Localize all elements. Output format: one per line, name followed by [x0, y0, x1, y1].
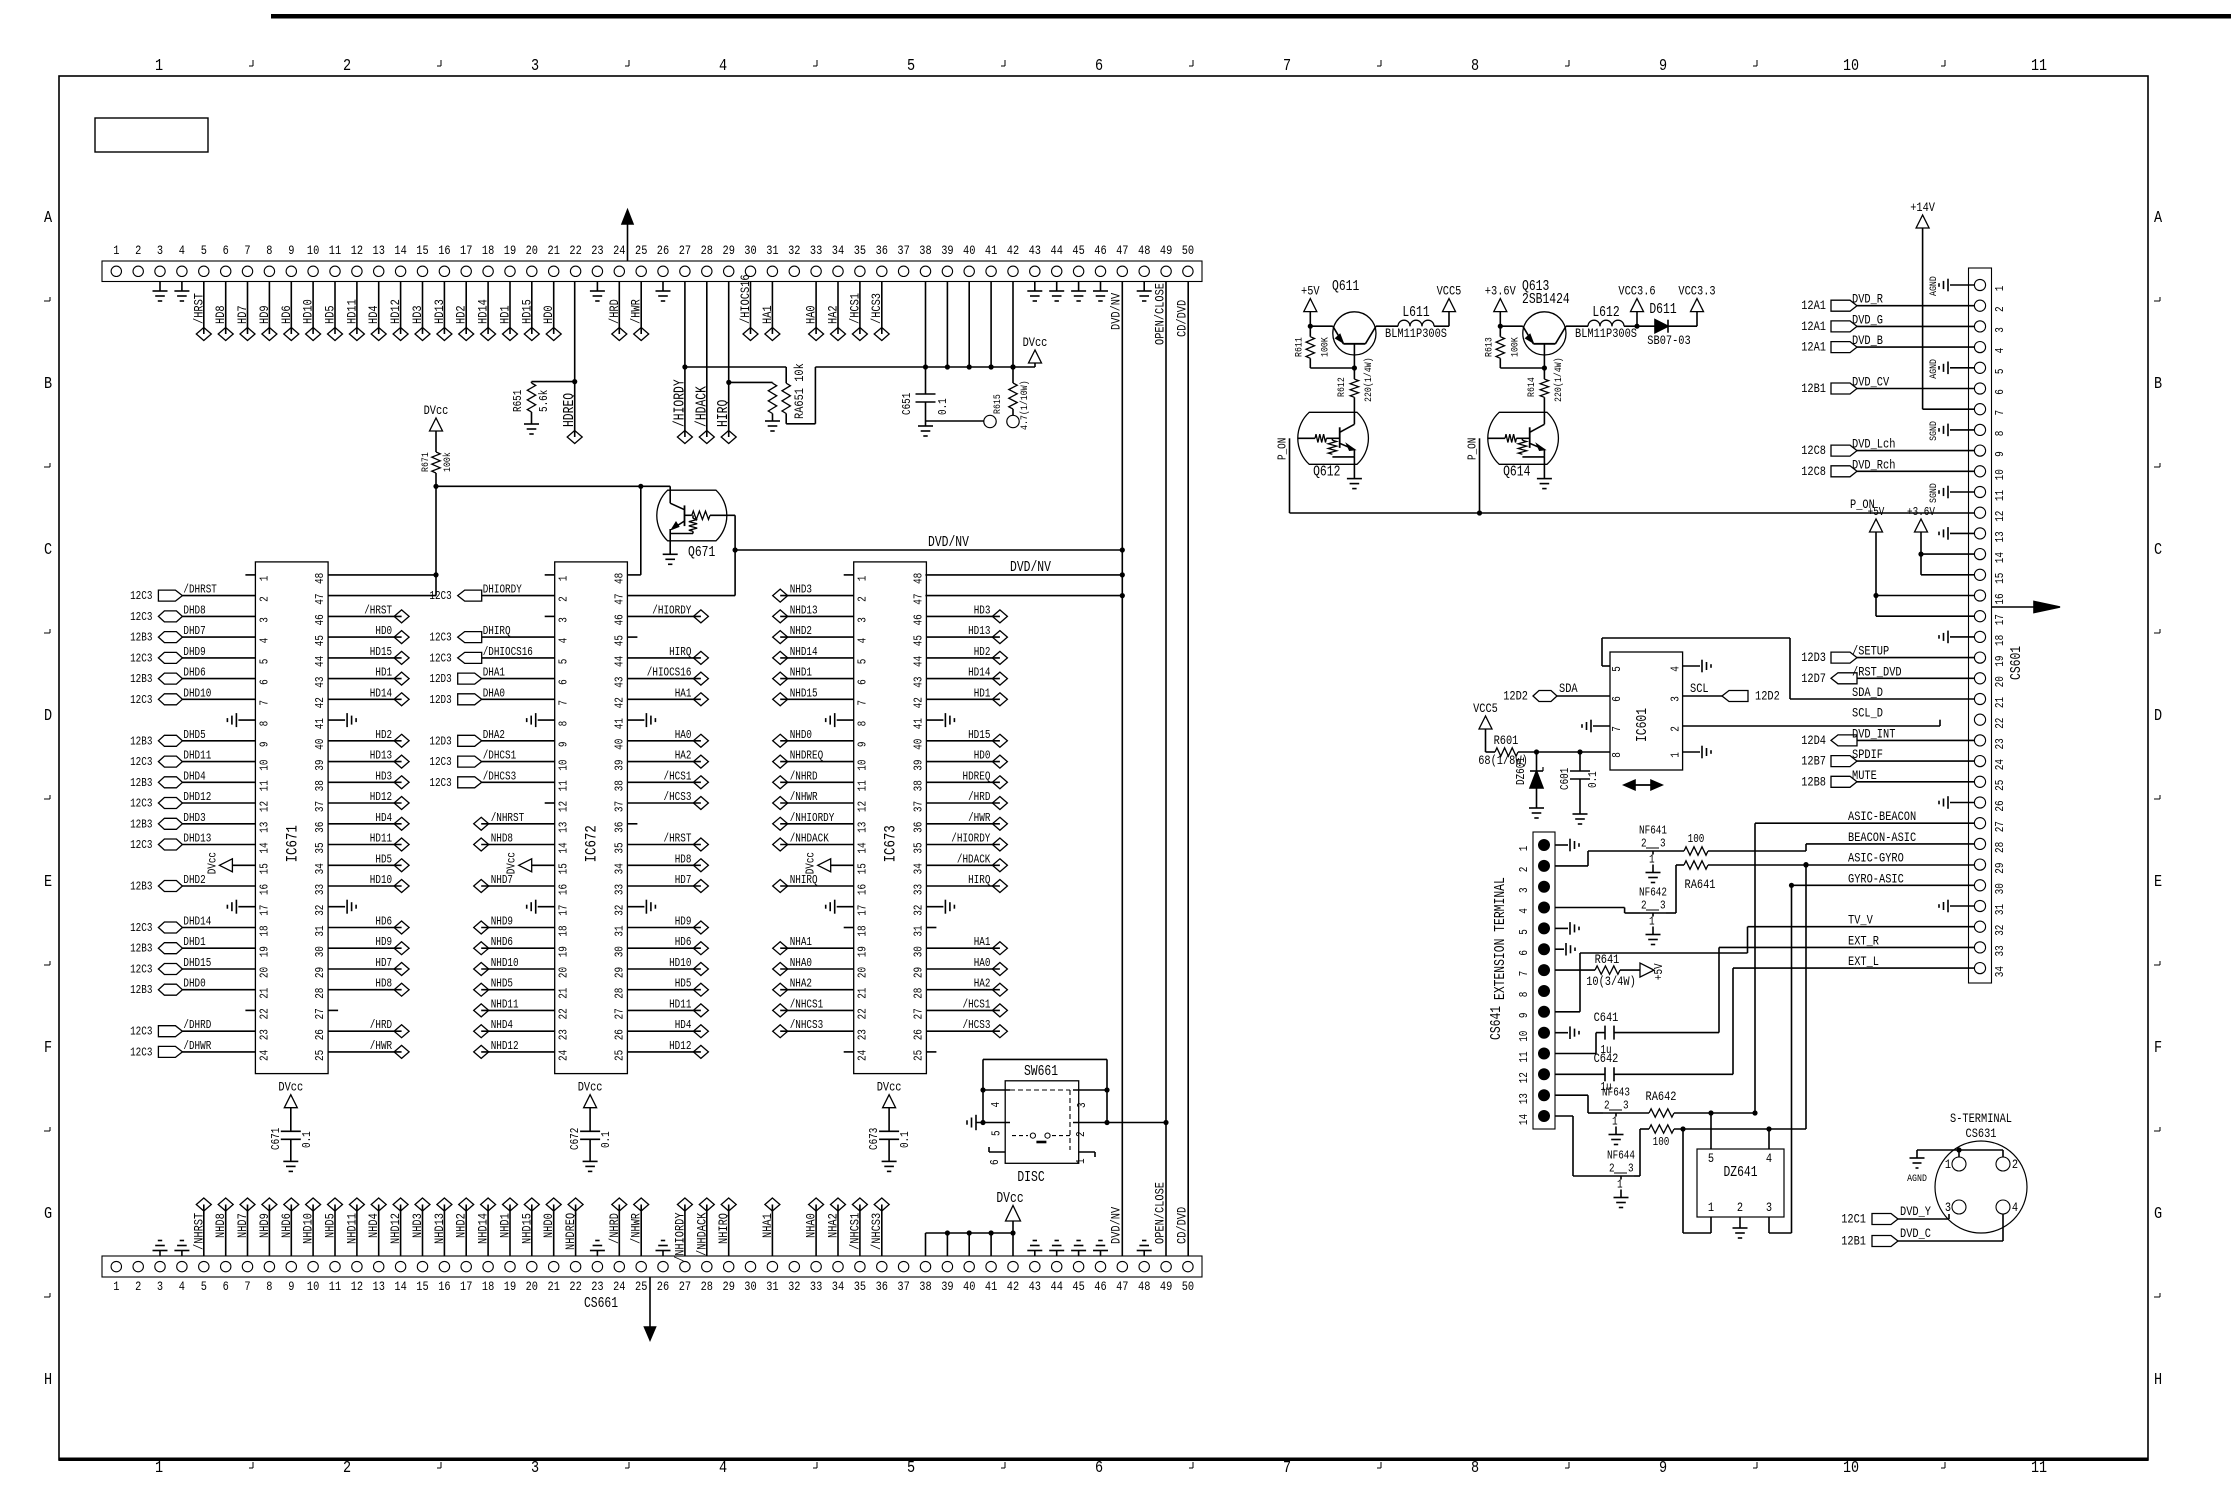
svg-text:12D3: 12D3: [429, 672, 451, 686]
svg-text:42: 42: [911, 697, 925, 708]
svg-text:SCL_D: SCL_D: [1852, 706, 1883, 721]
svg-text:40: 40: [963, 1279, 975, 1294]
connector CS601: [1969, 268, 1992, 983]
svg-text:27: 27: [679, 1279, 691, 1294]
svg-text:DVD_C: DVD_C: [1900, 1226, 1931, 1241]
net stub /NHRST: [203, 1205, 205, 1257]
svg-text:D611: D611: [1649, 302, 1676, 318]
svg-text:22: 22: [856, 1008, 870, 1019]
svg-text:20: 20: [257, 967, 271, 978]
net flag DVD_C 12B1: [1872, 1236, 1898, 1247]
svg-text:0.1: 0.1: [300, 1131, 314, 1148]
power DVcc: [831, 864, 854, 866]
svg-text:/HWR: /HWR: [370, 1039, 392, 1053]
svg-text:27: 27: [313, 1008, 327, 1019]
svg-text:0.1: 0.1: [898, 1131, 912, 1148]
svg-text:12C3: 12C3: [130, 1025, 152, 1039]
svg-text:1: 1: [1612, 1115, 1618, 1129]
net stub NHD9: [268, 1205, 270, 1257]
svg-text:43: 43: [313, 677, 327, 688]
ground: [238, 906, 255, 908]
resistor array RA641 (lower): [1684, 861, 1708, 869]
net stub HD6: [328, 927, 402, 929]
svg-text:AGND: AGND: [1907, 1173, 1927, 1185]
svg-text:HD8: HD8: [675, 852, 692, 866]
svg-text:7: 7: [1283, 1459, 1291, 1478]
svg-text:G: G: [44, 1205, 52, 1224]
svg-text:100K: 100K: [1509, 337, 1521, 357]
svg-text:25: 25: [1993, 780, 2007, 791]
svg-text:6: 6: [1610, 696, 1624, 702]
svg-text:3: 3: [856, 617, 870, 623]
svg-text:NF644: NF644: [1607, 1149, 1635, 1163]
svg-text:26: 26: [911, 1029, 925, 1040]
ground: [1056, 282, 1058, 292]
svg-text:/NHDACK: /NHDACK: [790, 832, 829, 846]
svg-text:12C3: 12C3: [429, 776, 451, 790]
resistor array RA642: [1649, 1109, 1674, 1117]
svg-text:NHD1: NHD1: [498, 1213, 513, 1238]
svg-text:OPEN/CLOSE: OPEN/CLOSE: [1152, 1182, 1167, 1244]
svg-text:4: 4: [557, 638, 571, 644]
svg-text:NHD5: NHD5: [323, 1213, 338, 1238]
svg-text:37: 37: [897, 1279, 909, 1294]
svg-text:6: 6: [1517, 950, 1531, 956]
svg-text:HD3: HD3: [410, 305, 425, 324]
svg-text:1: 1: [557, 576, 571, 582]
svg-text:24: 24: [856, 1050, 870, 1061]
svg-text:38: 38: [313, 780, 327, 791]
net flag DVD_R: [1857, 305, 1974, 307]
svg-text:HD11: HD11: [669, 997, 691, 1011]
svg-text:NHD12: NHD12: [388, 1213, 403, 1244]
net stub /NHRD: [780, 781, 854, 783]
svg-text:/DHCS3: /DHCS3: [483, 769, 517, 783]
svg-text:12: 12: [351, 1279, 363, 1294]
net stub HD15: [328, 657, 402, 659]
svg-text:HD5: HD5: [375, 852, 392, 866]
svg-text:+14V: +14V: [1910, 200, 1935, 215]
svg-text:17: 17: [856, 905, 870, 916]
svg-text:+5V: +5V: [1652, 963, 1666, 980]
svg-text:29: 29: [612, 967, 626, 978]
net stub HD0: [328, 636, 402, 638]
svg-text:44: 44: [612, 656, 626, 667]
svg-text:DHD2: DHD2: [183, 873, 205, 887]
svg-text:20: 20: [526, 243, 538, 258]
net flag DHD5: [182, 740, 255, 742]
svg-text:3: 3: [531, 1459, 539, 1478]
svg-text:NHD5: NHD5: [491, 977, 513, 991]
capacitor C671 0.1: [281, 1130, 301, 1132]
svg-text:OPEN/CLOSE: OPEN/CLOSE: [1152, 283, 1167, 345]
net stub /HCS3: [926, 1030, 1000, 1032]
svg-text:5: 5: [201, 1279, 207, 1294]
net stub HD4: [328, 823, 402, 825]
net stub NHD3: [780, 595, 854, 597]
net stub NHD4: [481, 1030, 555, 1032]
svg-text:33: 33: [313, 884, 327, 895]
net flag /DHRST: [182, 595, 255, 597]
svg-text:HDREQ: HDREQ: [963, 769, 991, 783]
net stub HIRQ: [926, 885, 1000, 887]
svg-text:18: 18: [257, 925, 271, 936]
svg-text:4.7(1/10W): 4.7(1/10W): [1019, 380, 1031, 430]
svg-text:37: 37: [897, 243, 909, 258]
svg-text:HD4: HD4: [375, 811, 392, 825]
svg-text:23: 23: [591, 1279, 603, 1294]
svg-text:HD7: HD7: [235, 305, 250, 324]
svg-text:48: 48: [313, 573, 327, 584]
svg-text:HD9: HD9: [675, 915, 692, 929]
svg-text:EXT_R: EXT_R: [1848, 933, 1879, 948]
svg-text:4: 4: [989, 1102, 1003, 1108]
ground: [1143, 1251, 1145, 1257]
svg-text:1: 1: [1649, 915, 1655, 929]
transistor Q612: [1298, 412, 1369, 464]
svg-text:NHD4: NHD4: [491, 1018, 513, 1032]
resistor R613 100K: [1499, 326, 1501, 337]
net stub HD1: [328, 678, 402, 680]
power +5V: [1870, 519, 1883, 532]
svg-text:8: 8: [1471, 57, 1479, 76]
ground: [596, 1251, 598, 1257]
svg-text:7: 7: [1283, 57, 1291, 76]
svg-text:DVcc: DVcc: [996, 1191, 1023, 1207]
svg-text:NHIRQ: NHIRQ: [790, 873, 818, 887]
svg-text:HA1: HA1: [760, 305, 775, 324]
svg-text:5: 5: [990, 1130, 1004, 1136]
svg-text:47: 47: [612, 593, 626, 604]
net stub HD2: [465, 282, 467, 335]
svg-text:24: 24: [613, 243, 626, 258]
svg-text:42: 42: [612, 697, 626, 708]
ground: [1950, 636, 1974, 638]
svg-text:9: 9: [288, 1279, 294, 1294]
svg-text:43: 43: [1029, 243, 1041, 258]
svg-text:10: 10: [307, 1279, 319, 1294]
svg-text:12C3: 12C3: [130, 797, 152, 811]
svg-text:21: 21: [557, 988, 571, 999]
net stub NHD9: [481, 927, 555, 929]
svg-text:23: 23: [1993, 738, 2007, 749]
resistor R612 220(1/4W): [1353, 368, 1355, 379]
svg-text:42: 42: [1007, 243, 1019, 258]
svg-text:/HCS1: /HCS1: [847, 293, 862, 324]
net flag DHD12: [182, 802, 255, 804]
svg-text:11: 11: [329, 243, 342, 258]
svg-text:32: 32: [1993, 925, 2007, 936]
svg-text:L611: L611: [1402, 305, 1429, 321]
svg-text:DVcc: DVcc: [505, 852, 519, 874]
net stub HD14: [487, 282, 489, 335]
wire: [1555, 907, 1625, 909]
wire IC671 pin48/47 tie: [328, 574, 436, 576]
ground: [1100, 282, 1102, 292]
svg-text:14: 14: [394, 1279, 407, 1294]
svg-text:31: 31: [911, 925, 925, 936]
svg-text:12C1: 12C1: [1841, 1212, 1866, 1227]
svg-text:GYRO-ASIC: GYRO-ASIC: [1848, 871, 1904, 886]
svg-text:DHD7: DHD7: [183, 624, 205, 638]
svg-text:9: 9: [557, 742, 571, 748]
svg-text:26: 26: [657, 1279, 669, 1294]
svg-text:14: 14: [394, 243, 407, 258]
net stub NHD10: [312, 1205, 314, 1257]
ground: [662, 1251, 664, 1257]
svg-text:HA0: HA0: [974, 956, 991, 970]
svg-text:R641: R641: [1595, 952, 1620, 967]
svg-text:/HIORDY: /HIORDY: [672, 379, 688, 427]
net stub /HRD: [328, 1030, 402, 1032]
svg-text:HD15: HD15: [370, 645, 392, 659]
svg-text:HD10: HD10: [301, 299, 316, 324]
svg-text:1: 1: [1517, 846, 1531, 852]
net stub HD13: [926, 636, 1000, 638]
svg-text:F: F: [2154, 1039, 2162, 1058]
net stub /NHRD: [618, 1205, 620, 1257]
svg-text:R671: R671: [420, 452, 432, 472]
svg-text:1: 1: [113, 1279, 119, 1294]
svg-text:16: 16: [438, 1279, 450, 1294]
power DVcc: [883, 1095, 896, 1108]
net stub HD4: [627, 1030, 701, 1032]
svg-text:SCL: SCL: [1690, 681, 1709, 696]
svg-text:S-TERMINAL: S-TERMINAL: [1950, 1111, 2012, 1126]
net stub /HDACK: [926, 864, 1000, 866]
resistor R601 68(1/8W): [1495, 748, 1518, 756]
net stub HA2: [926, 989, 1000, 991]
svg-text:/HCS1: /HCS1: [664, 769, 692, 783]
svg-text:4: 4: [257, 638, 271, 644]
IC IC671: [255, 562, 328, 1074]
ground: [181, 282, 183, 292]
svg-text:3: 3: [1075, 1102, 1089, 1108]
svg-text:3: 3: [1766, 1200, 1772, 1215]
svg-text:/DHCS1: /DHCS1: [483, 749, 517, 763]
svg-text:41: 41: [911, 718, 925, 729]
svg-text:45: 45: [313, 635, 327, 646]
svg-text:DVD_R: DVD_R: [1852, 292, 1883, 307]
svg-text:10: 10: [1993, 469, 2007, 480]
net stub HD10: [627, 968, 701, 970]
wire: [1555, 1115, 1573, 1117]
ground: [1950, 429, 1974, 431]
svg-text:24: 24: [613, 1279, 626, 1294]
net stub /NHDACK: [706, 1205, 708, 1257]
svg-text:21: 21: [257, 988, 271, 999]
svg-text:29: 29: [313, 967, 327, 978]
ground: [1573, 813, 1588, 815]
svg-text:10(3/4W): 10(3/4W): [1586, 974, 1636, 989]
svg-text:38: 38: [911, 780, 925, 791]
thick top rule: [271, 14, 2231, 19]
svg-text:12B3: 12B3: [130, 776, 152, 790]
net stub /HDACK: [706, 282, 708, 438]
svg-text:12D3: 12D3: [429, 693, 451, 707]
net DVD/NV wire IC673 pin48: [925, 574, 1122, 576]
diode D611 SB07-03: [1637, 325, 1655, 327]
net stub NHD1: [780, 678, 854, 680]
svg-text:47: 47: [911, 593, 925, 604]
svg-text:16: 16: [438, 243, 450, 258]
svg-text:12C3: 12C3: [429, 651, 451, 665]
svg-text:12B1: 12B1: [1801, 381, 1826, 396]
svg-text:44: 44: [1051, 1279, 1064, 1294]
svg-text:R612: R612: [1336, 377, 1348, 397]
svg-text:NHD6: NHD6: [491, 935, 513, 949]
svg-text:24: 24: [557, 1050, 571, 1061]
net stub /HIORDY: [627, 615, 701, 617]
svg-text:8: 8: [266, 243, 272, 258]
svg-text:DHD14: DHD14: [183, 915, 211, 929]
svg-text:8: 8: [1471, 1459, 1479, 1478]
svg-text:4: 4: [1993, 348, 2007, 354]
net stub NHD2: [465, 1205, 467, 1257]
svg-text:32: 32: [788, 1279, 800, 1294]
ground: [583, 1160, 598, 1162]
ground: [1100, 1251, 1102, 1257]
svg-text:2: 2: [257, 596, 271, 602]
svg-text:34: 34: [313, 863, 327, 874]
power DVcc: [1029, 350, 1042, 363]
svg-text:NHD8: NHD8: [491, 832, 513, 846]
net stub HDREQ: [926, 781, 1000, 783]
svg-text:DHIRQ: DHIRQ: [483, 624, 511, 638]
svg-text:4: 4: [1669, 666, 1683, 672]
ground: [159, 1251, 161, 1257]
svg-text:12B1: 12B1: [1841, 1234, 1866, 1249]
svg-text:23: 23: [856, 1029, 870, 1040]
IC IC601: [1610, 652, 1683, 770]
svg-text:/NHCS1: /NHCS1: [790, 997, 824, 1011]
svg-text:23: 23: [257, 1029, 271, 1040]
svg-text:HA0: HA0: [675, 728, 692, 742]
svg-text:11: 11: [2031, 1459, 2047, 1478]
svg-text:10: 10: [307, 243, 319, 258]
svg-text:NHA2: NHA2: [790, 977, 812, 991]
svg-text:4: 4: [179, 1279, 185, 1294]
svg-text:13: 13: [1517, 1093, 1531, 1104]
svg-text:40: 40: [612, 739, 626, 750]
net flag SDA 12D2: [1557, 695, 1610, 697]
net flag SCL 12D2: [1683, 695, 1722, 697]
svg-text:4: 4: [2012, 1200, 2018, 1215]
svg-text:C651: C651: [900, 393, 914, 415]
svg-text:37: 37: [911, 801, 925, 812]
svg-text:R615: R615: [992, 394, 1004, 414]
svg-text:33: 33: [612, 884, 626, 895]
svg-text:VCC3.3: VCC3.3: [1678, 284, 1715, 299]
svg-text:15: 15: [856, 863, 870, 874]
svg-text:31: 31: [313, 925, 327, 936]
svg-text:35: 35: [313, 842, 327, 853]
net stub /HCS3: [881, 282, 883, 335]
svg-text:38: 38: [919, 243, 931, 258]
svg-text:19: 19: [257, 946, 271, 957]
ground: [328, 719, 345, 721]
svg-text:30: 30: [911, 946, 925, 957]
svg-text:11: 11: [557, 780, 571, 791]
svg-text:NHD4: NHD4: [366, 1213, 381, 1238]
svg-text:25: 25: [612, 1050, 626, 1061]
net DVD/NV: [735, 549, 1122, 551]
svg-text:100K: 100K: [1319, 337, 1331, 357]
svg-text:SDA_D: SDA_D: [1852, 685, 1883, 700]
net stub NHD15: [531, 1205, 533, 1257]
net flag DHD14: [182, 927, 255, 929]
svg-text:EXTENSION TERMINAL: EXTENSION TERMINAL: [1493, 877, 1509, 1000]
ground: [1950, 367, 1974, 369]
svg-text:HD2: HD2: [375, 728, 392, 742]
resistor R651 5.6k: [574, 282, 576, 438]
net stub HD5: [328, 864, 402, 866]
svg-text:ASIC-BEACON: ASIC-BEACON: [1848, 809, 1916, 824]
svg-text:12: 12: [1517, 1072, 1531, 1083]
net stub NHD0: [780, 740, 854, 742]
net stub NHD14: [487, 1205, 489, 1257]
svg-text:14: 14: [557, 842, 571, 853]
net flag /SETUP: [1857, 657, 1974, 659]
svg-text:12B3: 12B3: [130, 942, 152, 956]
off-page arrow up: [627, 224, 629, 261]
net stub HD8: [225, 282, 227, 335]
svg-text:7: 7: [1993, 410, 2007, 416]
svg-text:DHD15: DHD15: [183, 956, 211, 970]
svg-text:4: 4: [1766, 1151, 1772, 1166]
svg-text:1: 1: [1945, 1157, 1951, 1172]
svg-text:30: 30: [313, 946, 327, 957]
net stub NHD1: [509, 1205, 511, 1257]
svg-text:BEACON-ASIC: BEACON-ASIC: [1848, 830, 1916, 845]
svg-text:1: 1: [113, 243, 119, 258]
svg-text:DVD_CV: DVD_CV: [1852, 375, 1889, 390]
svg-text:39: 39: [941, 1279, 953, 1294]
svg-text:6: 6: [223, 243, 229, 258]
svg-text:10: 10: [557, 760, 571, 771]
svg-text:C672: C672: [568, 1128, 582, 1150]
svg-text:DVD_B: DVD_B: [1852, 333, 1883, 348]
svg-text:DHD9: DHD9: [183, 645, 205, 659]
svg-text:TV_V: TV_V: [1848, 913, 1873, 928]
svg-text:35: 35: [612, 842, 626, 853]
svg-text:DVD_INT: DVD_INT: [1852, 726, 1896, 741]
diode array DZ641: [1697, 1149, 1784, 1217]
svg-text:12: 12: [856, 801, 870, 812]
svg-text:46: 46: [1094, 243, 1106, 258]
svg-text:/DHRD: /DHRD: [183, 1018, 211, 1032]
net flag DVD_G: [1857, 325, 1974, 327]
svg-text:12A1: 12A1: [1801, 319, 1826, 334]
net stub HIRQ: [627, 657, 701, 659]
svg-text:5: 5: [907, 1459, 915, 1478]
svg-text:NHD10: NHD10: [301, 1213, 316, 1244]
IC IC672: [555, 562, 628, 1074]
svg-text:HA1: HA1: [675, 686, 692, 700]
svg-text:41: 41: [313, 718, 327, 729]
net flag DHD2: [182, 885, 255, 887]
ground: [1034, 282, 1036, 292]
ground: [662, 282, 664, 292]
svg-text:CD/DVD: CD/DVD: [1175, 1207, 1190, 1244]
ground: [1950, 802, 1974, 804]
svg-text:D: D: [44, 707, 52, 726]
svg-text:47: 47: [313, 594, 327, 605]
net flag DHD9: [182, 657, 255, 659]
svg-text:/DHRST: /DHRST: [183, 583, 217, 597]
svg-text:44: 44: [1051, 243, 1064, 258]
svg-text:8: 8: [1517, 992, 1531, 998]
